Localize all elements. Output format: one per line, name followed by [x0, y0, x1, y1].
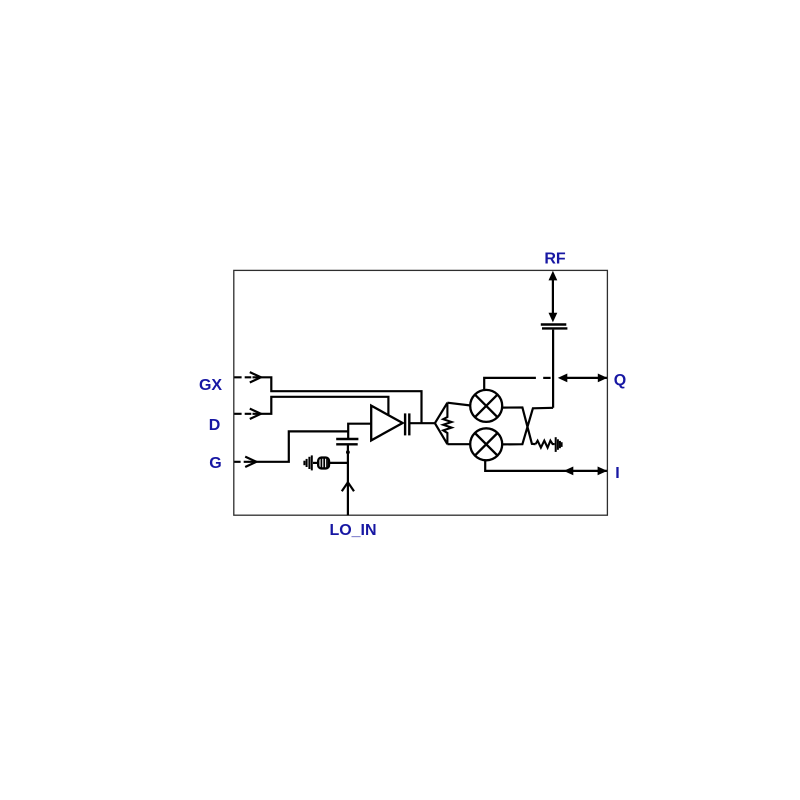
wire splitter bottom rail [447, 443, 469, 445]
svg-text:Q: Q [614, 372, 626, 389]
wire M1 to Q line [484, 378, 536, 390]
resistor R1 (vertical zigzag) [443, 403, 451, 445]
ground (right, rotated) [556, 437, 562, 452]
arrowhead LO_IN (open, up) [342, 482, 354, 491]
wire choke to ground [313, 462, 318, 464]
wire C2 to splitter [410, 422, 435, 424]
wire cap C1 to amplifier input [348, 424, 371, 439]
capacitor C3 (RF dc-block) [541, 325, 568, 329]
svg-text:GX: GX [199, 377, 222, 394]
ground (left, rotated) [304, 455, 311, 470]
arrowheads I output double arrow [564, 467, 574, 476]
svg-text:G: G [209, 455, 221, 472]
wire crossover M2 out to RF node [502, 408, 553, 445]
wire crossover M1 out to termination [502, 408, 535, 445]
inductor L1 (choke) [318, 458, 329, 469]
wire Q output double arrow [567, 377, 607, 379]
svg-text:RF: RF [544, 251, 566, 268]
svg-text:D: D [209, 417, 221, 434]
mixer M2 [470, 428, 502, 460]
capacitor C2 (series, vertical plates) [405, 413, 409, 435]
power splitter (diamond) [435, 403, 448, 445]
wire splitter top rail [447, 403, 469, 406]
wire Q jumper dash [543, 377, 550, 379]
wire RF input double arrow [552, 275, 554, 318]
junction dot [346, 450, 350, 454]
mixer M1 [470, 390, 502, 422]
wire M2 to I line [485, 461, 607, 471]
wire GX input (dashed lead) [234, 372, 421, 423]
capacitor C1 (LO series cap) [336, 439, 358, 444]
wire LO_IN vertical [347, 445, 349, 515]
svg-text:I: I [615, 465, 619, 482]
wire D input (dashed lead) [234, 397, 388, 419]
amplifier A1 [371, 406, 402, 441]
wire LO bias stub [329, 462, 348, 464]
resistor R2 (horizontal zigzag) [536, 441, 555, 448]
wire G input (dashed lead) [234, 431, 348, 467]
svg-text:LO_IN: LO_IN [329, 522, 376, 539]
enclosure box [234, 270, 608, 515]
wire RF cap down to crossover [552, 330, 554, 408]
